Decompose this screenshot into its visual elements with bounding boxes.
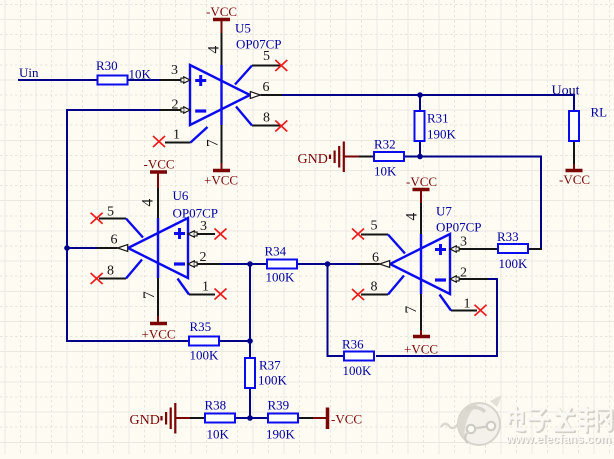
U5 pin 8 stub: [236, 107, 252, 126]
wire R37 column vertical: [249, 263, 251, 358]
U5 pin 6 line: [261, 94, 284, 96]
U7 pin 5 line: [361, 234, 388, 236]
resistor R37 body: [245, 358, 255, 388]
U6 pin 1 no-connect X: [215, 289, 227, 300]
svg-text:RL: RL: [591, 105, 608, 120]
svg-text:7: 7: [141, 291, 158, 299]
svg-text:U5: U5: [235, 21, 251, 36]
op-amp U5 internal power rail line: [220, 65, 222, 125]
svg-text:-VCC: -VCC: [559, 172, 590, 187]
U7 pin 6 line: [359, 263, 380, 265]
junction node bottom row: [247, 415, 253, 421]
U7 pin 8 stub: [388, 276, 404, 295]
svg-text:100K: 100K: [499, 256, 529, 271]
U7 pin 8 line: [361, 294, 388, 296]
svg-text:6: 6: [111, 233, 118, 248]
U6 +VCC power lead: [157, 316, 159, 323]
svg-text:2: 2: [460, 266, 467, 281]
U6 pin 8 stub: [126, 260, 142, 279]
U6 pin 3 arrow: [188, 231, 194, 237]
svg-text:+VCC: +VCC: [142, 327, 176, 342]
svg-text:+VCC: +VCC: [204, 173, 238, 188]
U6 pin 3 line: [197, 233, 216, 235]
wire R32 to feedback column: [404, 156, 542, 158]
U6 pin 1 stub: [178, 279, 190, 295]
wire R34 right to column: [297, 263, 328, 265]
svg-text:2: 2: [172, 98, 179, 113]
U6 -VCC power bar: [150, 170, 167, 174]
op-amp U7 internal power rail line: [420, 234, 422, 294]
U5 pin 5 line: [252, 65, 280, 67]
watermark squiggle: [441, 424, 458, 428]
wire R35 right lead: [219, 340, 251, 342]
svg-text:R33: R33: [497, 229, 519, 244]
wire feedback loop to R36: [376, 355, 498, 357]
RL -VCC power lead: [573, 164, 575, 170]
svg-text:www.elecfans.com: www.elecfans.com: [505, 432, 611, 446]
U5 pin 1 line: [165, 142, 191, 144]
wire R38 left lead: [190, 417, 205, 419]
U5 pin 4 line: [221, 33, 223, 65]
svg-text:1: 1: [464, 297, 471, 312]
wire U6 pin 2 to R34 left: [218, 263, 267, 265]
U7 pin 7 line: [420, 294, 422, 330]
junction node R34 left: [247, 261, 253, 267]
svg-text:10K: 10K: [207, 427, 230, 442]
svg-text:190K: 190K: [266, 427, 296, 442]
junction node U7 output: [325, 261, 331, 267]
U6 pin 8 line: [99, 278, 126, 280]
U6 pin 6 line: [97, 247, 118, 249]
RL -VCC power bar: [566, 169, 583, 173]
U5 pin 2 line: [160, 109, 182, 111]
svg-text:6: 6: [263, 80, 270, 95]
svg-text:100K: 100K: [190, 348, 220, 363]
U6 pin 5 line: [99, 218, 126, 220]
resistor RL body: [569, 111, 579, 141]
U5 -VCC power bar: [213, 18, 230, 22]
U6 pin 5 no-connect X: [91, 213, 103, 224]
svg-text:190K: 190K: [427, 127, 457, 142]
svg-text:10K: 10K: [129, 67, 152, 82]
svg-text:7: 7: [205, 139, 222, 147]
U6 +VCC power bar: [150, 322, 167, 326]
GND bottom power lead: [176, 417, 190, 419]
svg-text:R30: R30: [96, 58, 118, 73]
watermark chinese characters face: [509, 407, 611, 431]
U7 pin 1 stub: [440, 295, 452, 311]
wire R37 bottom to bottom row: [249, 388, 251, 419]
U7 pin 2 line: [459, 278, 490, 280]
svg-text:R39: R39: [268, 398, 290, 413]
svg-text:5: 5: [107, 205, 114, 220]
U7 pin 3 line to R33: [459, 248, 499, 250]
wire left vertical feedback: [66, 109, 68, 342]
resistor R34 body: [267, 260, 297, 269]
wire U7 feedback loop down: [496, 278, 498, 357]
U5 pin 6 arrow: [250, 92, 260, 99]
U7 pin 5 stub: [388, 235, 405, 254]
svg-text:1: 1: [202, 280, 209, 295]
svg-text:4: 4: [206, 46, 223, 54]
svg-text:3: 3: [460, 235, 467, 250]
U7 -VCC power lead: [420, 190, 422, 203]
svg-text:3: 3: [200, 219, 207, 234]
svg-text:8: 8: [107, 264, 114, 279]
junction node R31 bottom: [417, 154, 423, 160]
U5 pin 8 line: [252, 125, 280, 127]
svg-text:Uout: Uout: [552, 84, 580, 99]
resistor R35 body: [189, 337, 219, 346]
op-amp U7 minus sign: [435, 278, 446, 281]
wire R38 to R39: [235, 417, 268, 419]
svg-text:6: 6: [372, 251, 379, 266]
U6 pin 3 no-connect X: [215, 229, 227, 240]
svg-text:GND: GND: [298, 152, 328, 167]
junction node R31 top: [417, 92, 423, 98]
watermark logo: [458, 395, 502, 445]
U7 -VCC power bar: [413, 188, 430, 192]
U7 pin 6 arrow: [380, 261, 390, 268]
svg-text:-VCC: -VCC: [144, 157, 175, 172]
svg-text:8: 8: [371, 280, 378, 295]
op-amp U6 minus sign: [174, 262, 185, 265]
wire R36 left lead: [333, 355, 344, 357]
U5 pin 2 arrow: [184, 107, 190, 113]
svg-text:8: 8: [263, 111, 270, 126]
wire Uout down to RL: [573, 94, 575, 111]
svg-text:+VCC: +VCC: [404, 342, 438, 357]
U6 -VCC power lead: [157, 173, 159, 188]
U5 pin 5 stub: [235, 66, 252, 85]
svg-text:1: 1: [173, 128, 180, 143]
wire U5 pin 2 to left vertical: [66, 109, 160, 111]
U5 +VCC power lead: [221, 163, 223, 170]
U7 pin 4 line: [420, 203, 422, 234]
wire R36 column corner: [327, 355, 335, 357]
U6 pin 1 line: [189, 294, 215, 296]
U7 pin 5 no-connect X: [352, 229, 364, 240]
U7 pin 3 arrow: [450, 246, 456, 252]
U7 pin 8 no-connect X: [352, 289, 364, 300]
svg-text:R35: R35: [190, 319, 212, 334]
wire R39 right lead: [297, 417, 313, 419]
wire junction to R31 top: [419, 95, 421, 111]
op-amp U7 plus sign: [435, 244, 446, 255]
wire U7 output to column: [328, 263, 361, 265]
U6 pin 4 line: [157, 188, 159, 218]
wire feedback column down: [540, 156, 542, 251]
resistor R38 body: [205, 414, 235, 423]
resistor R31 body: [415, 111, 425, 141]
svg-text:2: 2: [200, 250, 207, 265]
U5 pin 7 line: [221, 125, 223, 163]
U6 pin 2 arrow: [188, 261, 194, 267]
junction node R35 right: [247, 338, 253, 344]
resistor R30 body: [98, 76, 128, 85]
svg-text:10K: 10K: [374, 164, 397, 179]
watermark chinese characters shadow: [511, 409, 613, 433]
op-amp U6 internal power rail line: [157, 218, 159, 278]
U6 pin 7 line: [157, 278, 159, 316]
ground symbol bottom: [162, 403, 176, 434]
wire U5 output to Uout: [282, 94, 575, 96]
U7 pin 1 no-connect X: [475, 305, 487, 316]
svg-text:R37: R37: [259, 358, 281, 373]
op-amp U5 body: [190, 65, 250, 125]
resistor R39 body: [268, 414, 298, 423]
svg-text:5: 5: [263, 49, 270, 64]
svg-text:OP07CP: OP07CP: [173, 206, 219, 221]
svg-text:-VCC: -VCC: [206, 4, 237, 19]
svg-text:7: 7: [403, 306, 420, 314]
wire R32 left lead: [359, 156, 374, 158]
op-amp U5 plus sign: [195, 75, 206, 86]
wire U6 output to left vertical: [67, 247, 98, 249]
U5 pin 5 no-connect X: [275, 60, 287, 71]
wire R31 bottom to row junction: [419, 141, 421, 157]
U5 pin 1 stub: [191, 127, 208, 143]
U5 -VCC power lead: [221, 20, 223, 33]
U7 +VCC power bar: [413, 335, 430, 339]
U6 pin 8 no-connect X: [91, 273, 103, 284]
resistor R32 body: [374, 152, 404, 161]
junction node at U6 output: [64, 245, 70, 251]
svg-text:3: 3: [171, 63, 178, 78]
U5 +VCC power bar: [213, 169, 230, 173]
svg-text:U6: U6: [173, 188, 189, 203]
wire feedback column to R33: [527, 248, 542, 250]
U5 pin 3 arrow: [184, 77, 190, 83]
svg-text:-VCC: -VCC: [331, 412, 362, 427]
svg-text:-VCC: -VCC: [406, 174, 437, 189]
U7 pin 2 arrow: [450, 276, 456, 282]
U7 pin 1 line: [451, 310, 477, 312]
ground symbol top: [330, 142, 344, 173]
wire left vertical to R35 row: [66, 340, 189, 342]
U6 pin 5 stub: [126, 219, 143, 238]
svg-text:100K: 100K: [266, 270, 296, 285]
resistor R33 body: [498, 244, 528, 253]
U5 pin 1 no-connect X: [153, 136, 165, 147]
svg-text:100K: 100K: [258, 373, 288, 388]
wire Uin to R30 to U5 pin 3: [18, 79, 161, 81]
op-amp U5 minus sign: [195, 109, 206, 112]
svg-text:OP07CP: OP07CP: [436, 220, 482, 235]
svg-text:4: 4: [140, 199, 157, 207]
U6 pin 6 arrow: [118, 245, 128, 252]
U5 pin 3 line: [160, 79, 182, 81]
svg-text:R36: R36: [342, 337, 364, 352]
bottom -VCC power lead: [313, 417, 327, 419]
RL bottom lead: [573, 141, 575, 164]
svg-text:4: 4: [404, 213, 421, 221]
op-amp U6 body: [128, 218, 188, 278]
svg-text:Uin: Uin: [19, 65, 39, 80]
svg-text:OP07CP: OP07CP: [236, 37, 282, 52]
op-amp U6 plus sign: [174, 228, 185, 239]
svg-text:R34: R34: [265, 244, 287, 259]
resistor R36 body: [344, 352, 374, 361]
bottom -VCC power bar: [326, 408, 330, 430]
U6 pin 2 line: [197, 263, 221, 265]
GND top power lead: [344, 156, 359, 158]
svg-text:5: 5: [371, 219, 378, 234]
svg-text:R38: R38: [205, 398, 227, 413]
svg-text:U7: U7: [436, 204, 452, 219]
U5 pin 8 no-connect X: [275, 121, 287, 132]
svg-text:R31: R31: [427, 111, 449, 126]
svg-text:R32: R32: [374, 137, 396, 152]
svg-text:GND: GND: [130, 413, 160, 428]
wire R36 column up to U7 output: [327, 263, 329, 357]
svg-text:100K: 100K: [343, 363, 373, 378]
U7 +VCC power lead: [420, 330, 422, 336]
wire U7 pin 2 to feedback loop: [488, 278, 498, 280]
op-amp U7 body: [390, 234, 450, 294]
